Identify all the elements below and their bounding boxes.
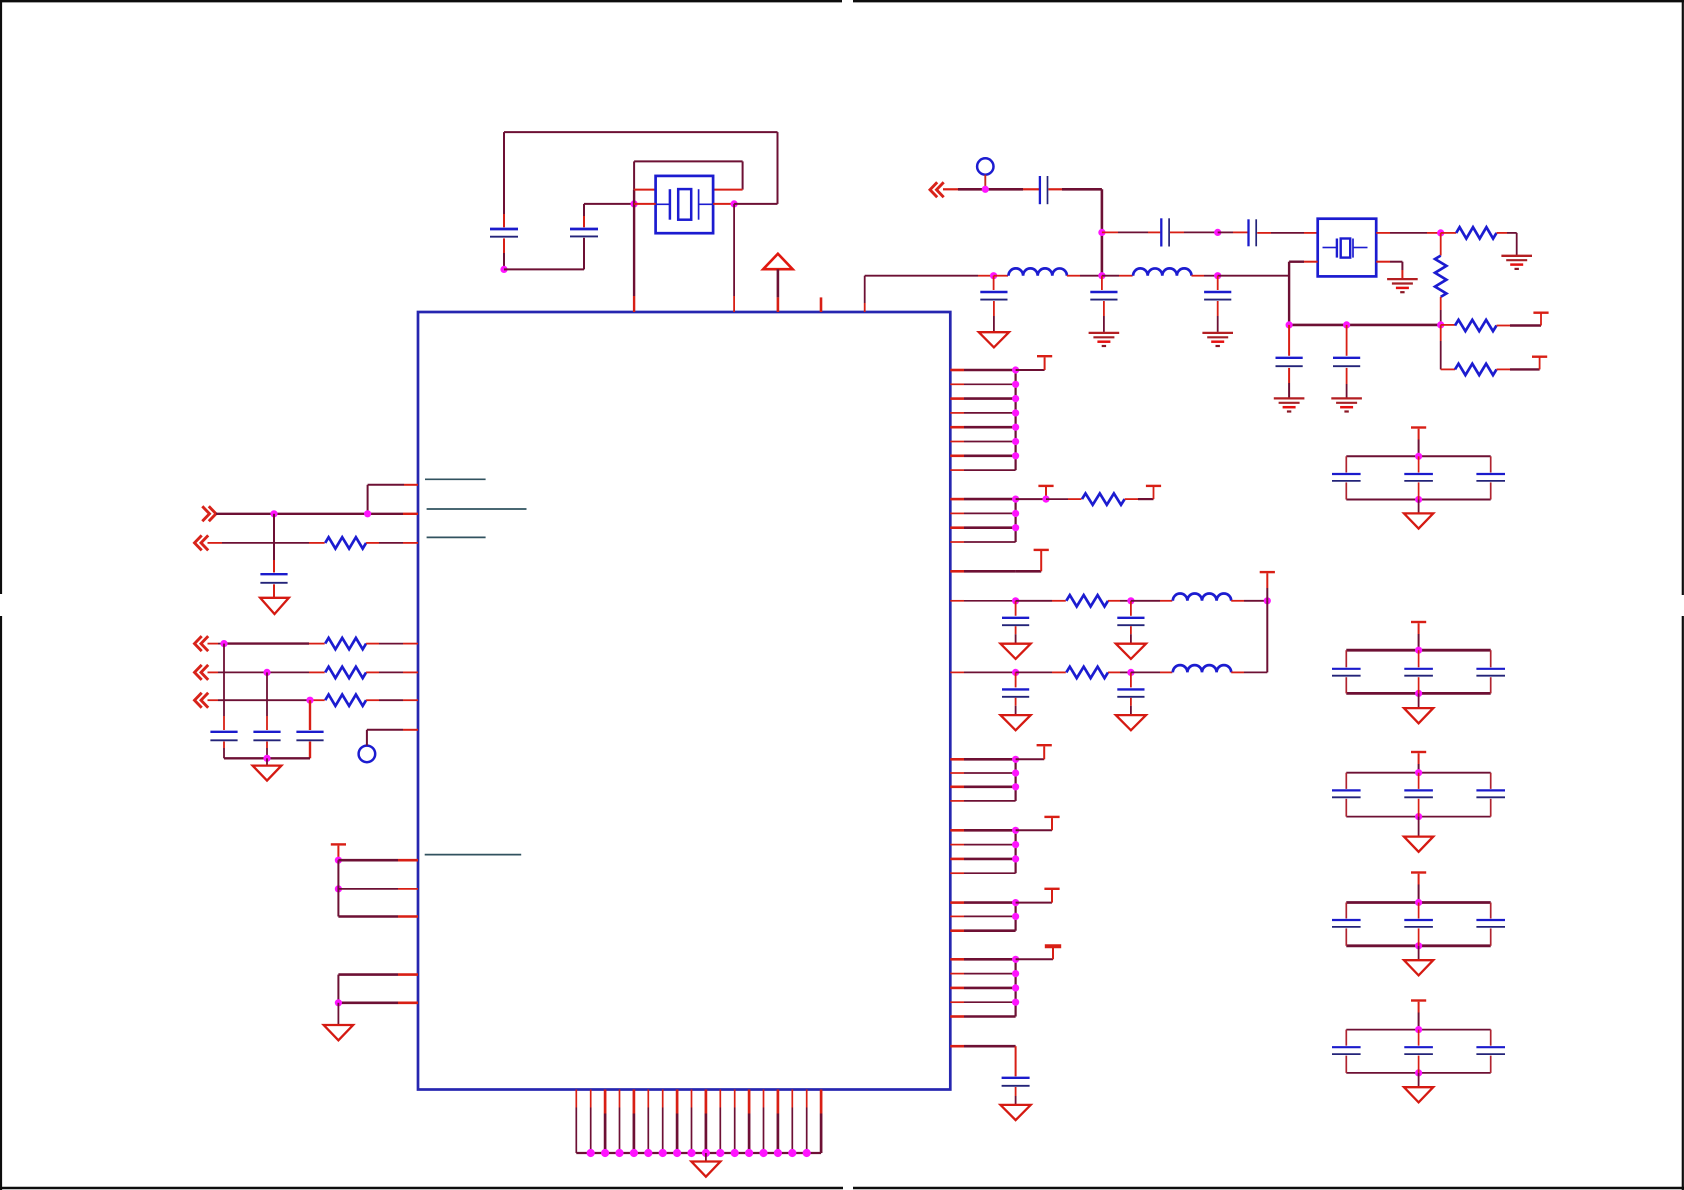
wire VCC stem bbox=[777, 269, 780, 312]
capacitor bank 4 b bbox=[1404, 919, 1433, 921]
wire caps ground rail bbox=[224, 757, 310, 759]
wire group B collector bbox=[1014, 499, 1016, 542]
earth ground C12 bbox=[1089, 332, 1120, 334]
wire C1 bottom to node bbox=[503, 238, 505, 269]
ground bank 2 bbox=[1404, 708, 1433, 723]
junction bank 3 bottom bbox=[1415, 813, 1422, 820]
crystal Y1 box bbox=[656, 176, 714, 233]
IC U1 body bbox=[418, 312, 950, 1090]
junction bank 5 bottom bbox=[1415, 1069, 1422, 1076]
junction bottom pin 7 bbox=[659, 1149, 667, 1157]
wire pin group D4 bbox=[950, 800, 1015, 802]
junction TB1 node bbox=[1042, 496, 1049, 503]
wire filter row 1 pin bbox=[950, 600, 1015, 602]
junction bank 1 bottom bbox=[1415, 496, 1422, 503]
wire group E collector bbox=[1014, 830, 1016, 873]
wire TL pin1 bbox=[338, 859, 418, 862]
wire TL pin2 bbox=[338, 888, 418, 890]
wire bottom ground bus bbox=[576, 1152, 821, 1154]
junction bottom pin 16 bbox=[788, 1149, 796, 1157]
wire in2 node to C16 bbox=[223, 644, 225, 730]
earth ground C10 bbox=[1331, 397, 1362, 399]
wire C13 to ground bbox=[1217, 301, 1219, 332]
wire crystal right pin vertical bbox=[733, 204, 735, 312]
wire bottom pin 8 bbox=[676, 1090, 679, 1154]
earth ground R1 bbox=[1501, 255, 1532, 257]
IC U1 pin line b bbox=[427, 508, 527, 510]
wire bottom pin 2 bbox=[590, 1090, 592, 1154]
junction IF node bbox=[1098, 229, 1105, 236]
capacitor C14 bbox=[1002, 1077, 1030, 1079]
wire row 1 n1 to C bbox=[1015, 601, 1017, 616]
wire group A to terminal bbox=[1016, 357, 1045, 370]
wire pin group D2 bbox=[950, 772, 1015, 774]
wire bottom pin 16 bbox=[791, 1090, 793, 1154]
wire pin group B1 bbox=[950, 498, 1015, 501]
junction bottom pin 11 bbox=[716, 1149, 724, 1157]
capacitor C15 bbox=[260, 573, 287, 575]
junction bottom pin 4 bbox=[615, 1149, 623, 1157]
wire bank 2 stem bbox=[1418, 623, 1420, 650]
wire feedback loop top bbox=[504, 132, 778, 204]
junction row 2 n2 bbox=[1127, 669, 1134, 676]
wire B1 to terminal TB1 bbox=[1016, 487, 1046, 499]
junction G1 bbox=[1012, 956, 1019, 963]
wire in3 to R10 bbox=[208, 671, 325, 673]
wire bottom pin 1 bbox=[575, 1090, 577, 1154]
wire bottom pin 14 bbox=[763, 1090, 765, 1154]
capacitor C17 bbox=[253, 731, 280, 733]
wire C1 top to loop bbox=[503, 132, 505, 227]
junction bottom pin 8 bbox=[673, 1149, 681, 1157]
wire group F collector bbox=[1014, 903, 1016, 931]
wire group G collector bbox=[1014, 959, 1016, 1016]
junction U2 output node bbox=[1437, 229, 1444, 236]
junction bank 2 top bbox=[1415, 647, 1422, 654]
wire bank 3 right stems bbox=[1490, 773, 1492, 817]
junction A2 bbox=[1012, 381, 1019, 388]
wire bank 2 ground stem bbox=[1418, 693, 1420, 708]
wire bottom pin 15 bbox=[777, 1090, 780, 1154]
wire pin group F1 bbox=[950, 901, 1015, 904]
wire bank 4 left stems bbox=[1345, 903, 1347, 946]
junction D2 bbox=[1012, 769, 1019, 776]
filter U2 crystal symbol bbox=[1323, 239, 1368, 258]
junction bank 5 top bbox=[1415, 1026, 1422, 1033]
IC U1 pin line d bbox=[425, 854, 522, 856]
ground bank 4 bbox=[1404, 960, 1433, 975]
ground bottom bus bbox=[691, 1162, 720, 1177]
wire pin group A5 bbox=[950, 426, 1015, 429]
capacitor C18 bbox=[296, 731, 323, 733]
wire in4 to R11 bbox=[208, 699, 325, 701]
capacitor bank 1 a bbox=[1332, 473, 1361, 475]
junction bottom pin 5 bbox=[630, 1149, 638, 1157]
wire pin C1 bbox=[950, 570, 1015, 573]
inductor row 2 bbox=[1173, 665, 1231, 672]
resistor R9 bbox=[325, 638, 366, 649]
wire row 2 R to n2 bbox=[1108, 671, 1131, 673]
wire bank 1 left stems bbox=[1345, 456, 1347, 499]
wire bottom pin 7 bbox=[662, 1090, 664, 1154]
wire pin group G5 bbox=[950, 1015, 1015, 1018]
wire row 2 n1 to C bbox=[1015, 672, 1017, 687]
wire R4 to terminal bbox=[1497, 358, 1540, 370]
capacitor row 2 a bbox=[1002, 688, 1029, 690]
ground GL bbox=[324, 1025, 353, 1040]
wire node to R2 bbox=[1440, 233, 1442, 256]
junction pi filter node1 bbox=[990, 272, 997, 279]
wire bank 4 stem bbox=[1418, 874, 1420, 903]
wire node2 to C12 bbox=[1101, 276, 1103, 290]
junction bottom pin 9 bbox=[687, 1149, 695, 1157]
wire bottom pin 12 bbox=[734, 1090, 736, 1154]
wire C2 top to crystal node bbox=[584, 204, 634, 227]
junction B1 bbox=[1012, 496, 1019, 503]
junction pi filter node2 bbox=[1098, 272, 1105, 279]
junction GL bbox=[335, 999, 342, 1006]
resistor R11 bbox=[325, 695, 366, 706]
wire J1 stem bbox=[984, 175, 986, 190]
wire group G to terminal bbox=[1016, 948, 1053, 960]
wire node3 to C13 bbox=[1217, 276, 1219, 290]
ground row 2 b bbox=[1116, 715, 1146, 730]
wire bank 5 mid stems bbox=[1418, 1030, 1420, 1073]
capacitor C11 bbox=[980, 291, 1007, 293]
junction row 1 n1 bbox=[1012, 597, 1019, 604]
wire C7 to node2 bbox=[1170, 231, 1218, 233]
wire C14 to ground bbox=[1015, 1087, 1017, 1105]
junction F2 bbox=[1012, 913, 1019, 920]
junction crystal right node bbox=[731, 200, 738, 207]
wire row 1 Ca to ground bbox=[1015, 626, 1017, 644]
wire pin group B2 bbox=[950, 512, 1015, 514]
terminal TL bar bbox=[331, 843, 346, 845]
antenna connector J1 bbox=[977, 158, 993, 174]
wire pin group D3 bbox=[950, 785, 1015, 788]
wire bank 5 stem bbox=[1418, 1002, 1420, 1030]
junction A3 bbox=[1012, 395, 1019, 402]
junction bottom pin 17 bbox=[803, 1149, 811, 1157]
sheet border left lower segment bbox=[0, 616, 2, 1190]
terminal TF bar bbox=[1044, 888, 1059, 890]
terminal bank 4 bar bbox=[1411, 871, 1426, 873]
wire crystal right stub bbox=[713, 203, 734, 205]
capacitor bank 2 a bbox=[1332, 668, 1361, 670]
wire node3 to U2 branch bbox=[1218, 275, 1289, 277]
IC U1 pin line c bbox=[427, 536, 486, 538]
wire bank 3 left stems bbox=[1345, 773, 1347, 817]
capacitor bank 5 a bbox=[1332, 1046, 1361, 1048]
wire bottom pin 5 bbox=[633, 1090, 636, 1154]
wire pin group A7 bbox=[950, 454, 1015, 457]
wire R8 to IC bbox=[366, 542, 418, 544]
wire C11 to ground bbox=[993, 301, 995, 332]
wire row 1 Cb to ground bbox=[1130, 626, 1132, 644]
junction crystal left node bbox=[631, 200, 638, 207]
inductor row 1 bbox=[1173, 594, 1231, 601]
wire C6 to corner node bbox=[1048, 189, 1102, 275]
wire R11 to IC bbox=[366, 699, 418, 701]
wire node a to C15 bbox=[273, 514, 275, 573]
port chevron in4 bbox=[195, 693, 202, 708]
junction in3 node bbox=[263, 669, 270, 676]
wire bottom pin 6 bbox=[647, 1090, 649, 1154]
ground C15 bbox=[260, 598, 289, 614]
wire crystal left stub bbox=[634, 203, 656, 205]
wire node2 to L2 bbox=[1102, 275, 1133, 277]
wire bottom pin 3 bbox=[604, 1090, 607, 1154]
ground bank 1 bbox=[1404, 513, 1433, 528]
junction node C1-C2 bbox=[500, 266, 507, 273]
wire bank 5 left stems bbox=[1345, 1030, 1347, 1073]
capacitor C6 bbox=[1039, 176, 1041, 204]
junction filter input node bbox=[1214, 229, 1221, 236]
filter U2 box bbox=[1318, 219, 1377, 277]
wire bank 1 right stems bbox=[1490, 456, 1492, 499]
junction in2 node bbox=[220, 640, 227, 647]
wire node1 to C11 bbox=[993, 276, 995, 290]
wire group F to terminal bbox=[1016, 890, 1052, 903]
wire TL stem bbox=[337, 846, 339, 861]
wire C9 to ground bbox=[1288, 368, 1290, 398]
wire row 1 L to right bbox=[1231, 600, 1267, 602]
wire node to R1 bbox=[1441, 232, 1457, 234]
wire bus node down to R4 bbox=[1441, 325, 1455, 370]
wire bank 1 stem bbox=[1418, 429, 1420, 457]
terminal TD bar bbox=[1037, 744, 1052, 746]
junction A4 bbox=[1012, 409, 1019, 416]
capacitor bank 4 c bbox=[1476, 919, 1505, 921]
sheet border left upper segment bbox=[0, 0, 2, 594]
wire pin group E3 bbox=[950, 858, 1015, 861]
ground row 1 b bbox=[1116, 644, 1146, 659]
capacitor C7 bbox=[1160, 218, 1162, 246]
wire group D collector bbox=[1014, 759, 1016, 801]
wire group E to terminal bbox=[1016, 818, 1052, 830]
junction B3 bbox=[1012, 524, 1019, 531]
port chevron in bbox=[195, 535, 202, 550]
terminal TB2 bar bbox=[1146, 485, 1161, 487]
junction D3 bbox=[1012, 783, 1019, 790]
capacitor row 1 b bbox=[1117, 617, 1144, 619]
junction bottom pin 6 bbox=[644, 1149, 652, 1157]
wire node to C2 bottom bbox=[504, 238, 584, 270]
wire row 2 n2 to L bbox=[1131, 671, 1172, 673]
wire pin group G2 bbox=[950, 973, 1015, 975]
junction row 1 n2 bbox=[1127, 597, 1134, 604]
earth ground C13 bbox=[1202, 332, 1233, 334]
wire C12 to ground bbox=[1103, 301, 1105, 332]
sheet border bottom-left segment bbox=[0, 1187, 843, 1189]
wire C pin to terminal bbox=[1016, 551, 1042, 571]
wire U2 lower-right pin to ground bbox=[1376, 262, 1402, 279]
capacitor C13 bbox=[1204, 291, 1231, 293]
inductor L2 bbox=[1133, 268, 1191, 275]
antenna connector J2 bbox=[359, 746, 376, 763]
junction bank 4 top bbox=[1415, 899, 1422, 906]
sheet border right lower segment bbox=[1682, 616, 1684, 1190]
wire bank 1 ground stem bbox=[1418, 500, 1420, 514]
wire pin group F2 bbox=[950, 915, 1015, 917]
terminal TB1 bar bbox=[1038, 485, 1053, 487]
wire bottom pin 4 bbox=[619, 1090, 621, 1154]
wire pin group A1 bbox=[950, 369, 1015, 372]
sheet border top-right segment bbox=[853, 0, 1684, 2]
junction G3 bbox=[1012, 984, 1019, 991]
IC U1 pin line a bbox=[425, 478, 486, 480]
port chevron in3 bbox=[195, 665, 202, 680]
junction TL2 bbox=[335, 885, 342, 892]
wire bank 1 mid stems bbox=[1418, 456, 1420, 499]
wire bank 4 bottom rail bbox=[1346, 944, 1490, 947]
wire bus left to C9 bbox=[1288, 325, 1290, 356]
port chevron in2 bbox=[195, 636, 202, 651]
wire bottom pin 18 bbox=[820, 1090, 823, 1154]
junction bus mid node bbox=[1343, 321, 1350, 328]
wire pin group A3 bbox=[950, 397, 1015, 400]
wire group D to terminal bbox=[1016, 746, 1045, 759]
junction port node a bbox=[270, 510, 277, 517]
terminal T3 bar bbox=[1533, 312, 1548, 314]
wire bus mid to C10 bbox=[1346, 325, 1348, 356]
wire bank 4 ground stem bbox=[1418, 946, 1420, 960]
sheet border top-left segment bbox=[0, 0, 842, 2]
wire pin group G3 bbox=[950, 987, 1015, 990]
junction A7 bbox=[1012, 452, 1019, 459]
ground row 1 a bbox=[1001, 644, 1031, 659]
wire pin group G4 bbox=[950, 1001, 1015, 1003]
capacitor C12 bbox=[1090, 291, 1117, 293]
ground bank 3 bbox=[1404, 837, 1433, 852]
wire C8 to filter U2 bbox=[1257, 232, 1318, 234]
terminal bank 3 bar bbox=[1411, 751, 1426, 753]
wire rail to ground bbox=[266, 758, 268, 765]
junction E1 bbox=[1012, 827, 1019, 834]
wire bank 2 right stems bbox=[1490, 650, 1492, 693]
capacitor C8 bbox=[1247, 219, 1249, 246]
junction F1 bbox=[1012, 899, 1019, 906]
wire pin H bbox=[950, 1045, 1015, 1048]
capacitor bank 3 c bbox=[1476, 789, 1505, 791]
wire pin group E2 bbox=[950, 844, 1015, 846]
wire IF node to C7 bbox=[1102, 231, 1160, 233]
wire node1 to L1 bbox=[994, 275, 1008, 277]
wire IC top to RF rail bbox=[865, 276, 994, 312]
wire bottom pin 10 bbox=[705, 1090, 708, 1154]
wire bank 4 right stems bbox=[1490, 903, 1492, 946]
capacitor bank 1 c bbox=[1476, 473, 1505, 475]
wire L2 to node3 bbox=[1192, 275, 1218, 277]
wire bank 3 bottom rail bbox=[1346, 816, 1490, 818]
sheet border right upper segment bbox=[1682, 0, 1684, 595]
wire R1 to ground bbox=[1497, 233, 1517, 255]
wire pin group G1 bbox=[950, 958, 1015, 961]
terminal bank 5 bar bbox=[1411, 999, 1426, 1001]
junction TL1 bbox=[335, 857, 342, 864]
junction E3 bbox=[1012, 855, 1019, 862]
capacitor bank 2 b bbox=[1404, 668, 1433, 670]
crystal Y1 symbol bbox=[657, 189, 713, 220]
resistor R1 bbox=[1456, 227, 1496, 238]
resistor row 1 bbox=[1066, 595, 1108, 606]
wire pin group E4 bbox=[950, 872, 1015, 874]
capacitor C10 bbox=[1333, 357, 1360, 359]
wire pin H down to C14 bbox=[1015, 1046, 1017, 1076]
terminal bank 2 bar bbox=[1411, 621, 1426, 623]
ground bank 5 bbox=[1404, 1087, 1433, 1102]
port chevron RF in bbox=[930, 182, 937, 197]
junction bank 4 bottom bbox=[1415, 942, 1422, 949]
wire bank 1 bottom rail bbox=[1346, 499, 1490, 501]
wire bank 5 bottom rail bbox=[1346, 1072, 1490, 1074]
junction RF port node bbox=[982, 186, 989, 193]
capacitor C9 bbox=[1276, 357, 1303, 359]
wire bottom pin 11 bbox=[719, 1090, 721, 1154]
wire U2 lower-left pin bbox=[1289, 262, 1318, 325]
wire R2 to bus node bbox=[1440, 297, 1442, 325]
junction bottom pin 10 bbox=[702, 1149, 710, 1157]
terminal T4 bar bbox=[1532, 356, 1547, 358]
wire bank 5 ground stem bbox=[1418, 1073, 1420, 1087]
wire bank 3 mid stems bbox=[1418, 773, 1420, 817]
wire TB1 node to R5 bbox=[1046, 498, 1082, 500]
wire GL collector bbox=[337, 975, 339, 1003]
wire port in to R8 bbox=[208, 542, 325, 544]
junction D1 bbox=[1012, 756, 1019, 763]
junction E2 bbox=[1012, 841, 1019, 848]
junction in4 node bbox=[306, 697, 313, 704]
wire pin group A6 bbox=[950, 441, 1015, 443]
resistor R10 bbox=[325, 667, 366, 678]
junction bottom pin 2 bbox=[587, 1149, 595, 1157]
wire bank 2 left stems bbox=[1345, 650, 1347, 693]
capacitor row 1 a bbox=[1002, 617, 1029, 619]
wire pin group A8 bbox=[950, 469, 1015, 471]
wire row 2 L to right bbox=[1231, 671, 1267, 673]
wire row 2 Ca to ground bbox=[1015, 698, 1017, 715]
wire bank 2 mid stems bbox=[1418, 650, 1420, 693]
port chevron out bbox=[209, 506, 216, 521]
wire bottom pin 9 bbox=[691, 1090, 693, 1154]
junction bottom pin 14 bbox=[759, 1149, 767, 1157]
capacitor C1 bbox=[490, 228, 518, 231]
junction bank 3 top bbox=[1415, 769, 1422, 776]
power symbol VCC bbox=[763, 254, 793, 270]
junction bank 1 top bbox=[1415, 453, 1422, 460]
wire pin L1 bbox=[368, 485, 418, 514]
junction bottom pin 15 bbox=[774, 1149, 782, 1157]
wire pin group E1 bbox=[950, 829, 1015, 832]
capacitor bank 5 c bbox=[1476, 1046, 1505, 1048]
resistor R5 bbox=[1082, 493, 1125, 504]
wire bank 1 top rail bbox=[1346, 455, 1490, 457]
terminal bank 1 bar bbox=[1411, 426, 1426, 428]
wire bus to ground bbox=[705, 1153, 707, 1161]
wire bank 5 right stems bbox=[1490, 1030, 1492, 1073]
junction A5 bbox=[1012, 424, 1019, 431]
wire bank 3 top rail bbox=[1346, 772, 1490, 774]
terminal TG bar bold bbox=[1045, 944, 1061, 948]
wire group A collector bbox=[1014, 370, 1016, 470]
wire row 1 n2 to Cb bbox=[1130, 601, 1132, 616]
capacitor bank 1 b bbox=[1404, 473, 1433, 475]
wire output bus bbox=[1289, 324, 1441, 327]
wire bus to R3 bbox=[1441, 324, 1455, 326]
resistor R8 bbox=[325, 537, 366, 548]
pin stub top bbox=[820, 297, 823, 312]
wire bank 3 stem bbox=[1418, 753, 1420, 773]
